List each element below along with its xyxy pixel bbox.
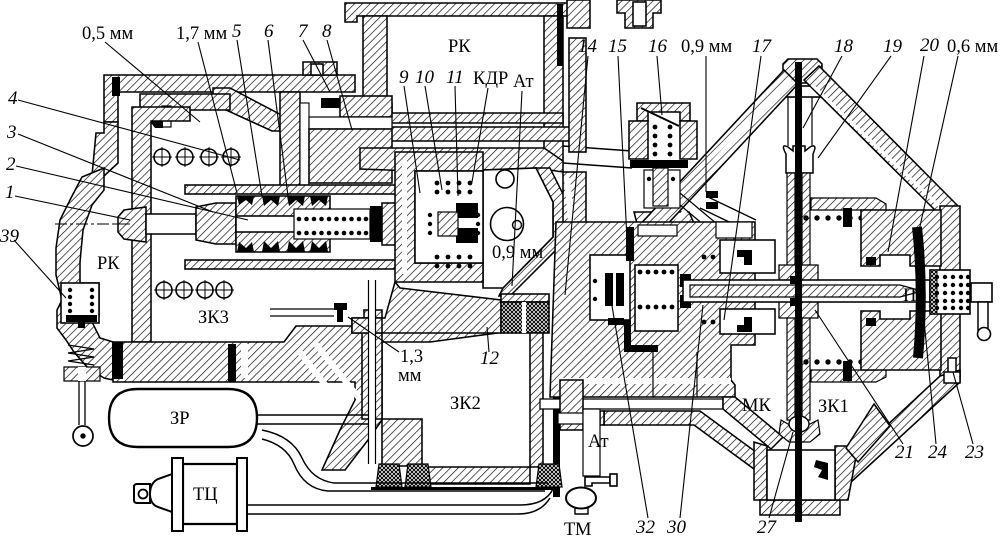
leader 6 bbox=[268, 40, 288, 196]
diamond lower-right slope band bbox=[826, 370, 960, 494]
KDR right wall band along pentagon bbox=[499, 168, 566, 296]
ZR tank bbox=[109, 389, 257, 447]
svg-text:П: П bbox=[903, 286, 916, 306]
stem tube upper lines bbox=[788, 97, 812, 146]
svg-text:Ат: Ат bbox=[513, 72, 534, 92]
assembly top black bar bbox=[626, 227, 634, 261]
svg-text:ТМ: ТМ bbox=[564, 520, 592, 537]
svg-text:мм: мм bbox=[398, 366, 422, 386]
svg-text:ЗК2: ЗК2 bbox=[450, 394, 481, 414]
KDR bracket interior bbox=[415, 171, 483, 263]
KDR center valve black rects bbox=[456, 203, 478, 218]
pocket B white bbox=[635, 265, 678, 331]
assembly black L seat bbox=[624, 320, 658, 352]
stem black continuous overlay bbox=[795, 62, 802, 520]
shaft black bits bbox=[790, 276, 799, 284]
vertical pillar bbox=[280, 92, 300, 186]
bottom pocket white bbox=[767, 450, 835, 500]
pipe ZR down right bbox=[262, 430, 548, 491]
leader 1,7mm bbox=[198, 42, 237, 193]
KDR piston spring dots upper bbox=[435, 181, 473, 195]
bottom bracket left band bbox=[754, 442, 767, 500]
svg-text:9: 9 bbox=[399, 67, 409, 88]
diagonal white channels in mass bbox=[298, 342, 359, 406]
ZK2 top bolt black bbox=[334, 303, 347, 322]
middle divider wall band bbox=[556, 172, 586, 310]
svg-text:39: 39 bbox=[0, 226, 20, 247]
white channel in slope bbox=[634, 196, 697, 276]
leader KDR bbox=[472, 88, 488, 182]
leader 39 bbox=[14, 240, 66, 298]
svg-text:18: 18 bbox=[834, 36, 854, 57]
svg-text:15: 15 bbox=[608, 36, 627, 57]
mesh block bbox=[930, 270, 970, 314]
svg-text:7: 7 bbox=[298, 21, 309, 42]
top-left black corner bar bbox=[112, 77, 120, 96]
KDR small dots center bbox=[428, 213, 480, 235]
diamond left slope band bbox=[594, 70, 798, 288]
dots row lower bbox=[803, 359, 874, 364]
apex plate bbox=[777, 86, 827, 97]
ZK2 left wall upper bbox=[362, 333, 382, 419]
white strip across assembly bbox=[556, 378, 731, 384]
piston shaft white channel bbox=[236, 216, 376, 232]
orifice 0,9mm black marks bbox=[706, 191, 718, 198]
TC flange right bbox=[237, 458, 247, 531]
shaft channel white bbox=[683, 280, 930, 302]
leader 32 bbox=[612, 306, 648, 518]
svg-text:1: 1 bbox=[5, 182, 15, 203]
shaft hatched bbox=[690, 285, 922, 297]
TC nose knob bbox=[134, 484, 150, 503]
black bar in band mid bbox=[228, 344, 236, 382]
valve16 black bar bbox=[630, 160, 688, 168]
leader 23 bbox=[953, 372, 973, 444]
muffler 3 bbox=[536, 464, 562, 487]
svg-text:0,9 мм: 0,9 мм bbox=[681, 37, 732, 57]
bolt hex head bbox=[118, 207, 146, 242]
KDR piston spring dots lower bbox=[435, 255, 473, 269]
KDR bracket slit bbox=[402, 160, 407, 274]
seal Y bottom 2 bbox=[262, 241, 280, 252]
bolt shaft bbox=[146, 214, 196, 234]
svg-text:ЗК1: ЗК1 bbox=[818, 397, 849, 417]
top wall bump bbox=[303, 62, 337, 75]
RK lower band second bbox=[375, 127, 576, 141]
ZK2 right wall bbox=[530, 333, 543, 467]
funnel band lower bbox=[604, 411, 760, 469]
valve16 stem dots bbox=[647, 177, 675, 181]
leader 19 bbox=[818, 56, 891, 158]
At channel walls bbox=[560, 380, 604, 430]
spring box bbox=[294, 209, 370, 239]
vertical white channel to muffler1 bbox=[369, 280, 376, 464]
valve16 foot bbox=[634, 212, 700, 246]
leader 9 bbox=[404, 86, 420, 193]
hatch above channel bbox=[340, 96, 392, 117]
pocket C hook top bbox=[737, 250, 752, 265]
pipe to ZK2 top horizontal bbox=[270, 309, 334, 316]
channel border lines in mass bbox=[653, 352, 697, 397]
bottom long wall band bbox=[113, 310, 520, 470]
pocket C white lower bbox=[720, 309, 775, 334]
svg-text:0,5 мм: 0,5 мм bbox=[82, 24, 133, 44]
leader 24 bbox=[918, 258, 936, 444]
svg-text:10: 10 bbox=[415, 67, 435, 88]
valve16 stem bbox=[653, 168, 668, 206]
seal Y bottom 3 bbox=[287, 241, 305, 252]
TC flange left bbox=[172, 458, 183, 531]
RK top box left wall bbox=[363, 16, 392, 115]
main stem black line bbox=[795, 62, 802, 522]
leader 20 bbox=[888, 56, 924, 252]
seal Y top 4 bbox=[310, 196, 328, 206]
valve39 black bar bbox=[66, 315, 97, 328]
TM valve ellipse bbox=[566, 488, 596, 509]
svg-text:11: 11 bbox=[446, 67, 464, 88]
svg-text:20: 20 bbox=[920, 35, 940, 56]
fitting pin bbox=[978, 302, 988, 330]
middle assembly base bbox=[550, 222, 755, 397]
pocket C white upper bbox=[720, 240, 775, 273]
svg-text:32: 32 bbox=[635, 517, 656, 537]
ZK2 heavy black L border bbox=[371, 308, 560, 497]
svg-text:6: 6 bbox=[264, 21, 274, 42]
diamond right wall bbox=[940, 206, 960, 376]
funnel band upper slant bbox=[723, 397, 783, 449]
TM stem bbox=[575, 508, 588, 514]
leader 27 bbox=[769, 432, 793, 518]
circles row 1 bbox=[152, 147, 241, 167]
svg-text:0,6 мм: 0,6 мм bbox=[947, 37, 998, 57]
channel slot above spring bbox=[638, 225, 677, 236]
left housing top wall bbox=[104, 75, 355, 122]
TC cylinder body bbox=[183, 464, 237, 524]
leader 1,3mm bbox=[348, 317, 399, 352]
leader 10 bbox=[425, 86, 442, 190]
spring dots bbox=[297, 217, 369, 236]
pipe ZR to housing bbox=[257, 415, 376, 424]
left housing inner vertical wall bbox=[132, 107, 190, 342]
svg-text:24: 24 bbox=[928, 442, 948, 463]
svg-text:8: 8 bbox=[322, 21, 332, 42]
stem black bottom bbox=[796, 420, 802, 520]
bottom bracket right band bbox=[835, 446, 858, 500]
seal Y top 2 bbox=[262, 196, 280, 206]
svg-text:21: 21 bbox=[895, 442, 914, 463]
right piston lower block bbox=[861, 311, 941, 370]
leader 0,6mm bbox=[914, 56, 958, 253]
right piston upper block bbox=[861, 210, 941, 266]
item7 black mark bbox=[321, 98, 340, 108]
white channel A bbox=[309, 117, 392, 129]
leader 11 bbox=[455, 86, 458, 196]
diamond right slope band bbox=[804, 66, 959, 219]
channel valve16 to diamond bbox=[700, 196, 756, 232]
pocket C hook bottom bbox=[737, 317, 752, 332]
KDR top band bbox=[360, 148, 563, 172]
svg-text:Ат: Ат bbox=[588, 432, 609, 452]
ZK2 left wall lower bbox=[382, 419, 422, 466]
valve16 spring dots bbox=[653, 125, 673, 157]
svg-text:19: 19 bbox=[883, 36, 903, 57]
pocket C dots bbox=[593, 255, 716, 325]
RK top box right wall bbox=[544, 16, 563, 160]
svg-text:5: 5 bbox=[232, 21, 242, 42]
circles row 2 bbox=[154, 280, 234, 300]
KDR small circle bbox=[496, 170, 514, 188]
dots row upper bbox=[803, 215, 874, 220]
svg-text:ТЦ: ТЦ bbox=[193, 485, 218, 505]
svg-text:РК: РК bbox=[448, 37, 471, 57]
valve39 stem bbox=[79, 381, 85, 425]
At stub white bbox=[558, 413, 583, 424]
leader 0,5mm bbox=[105, 42, 200, 122]
stem bulge bbox=[779, 265, 818, 318]
hatch strip right of RK wall bbox=[569, 38, 586, 152]
svg-text:МК: МК bbox=[742, 396, 771, 416]
KDR pentagon outline white bbox=[483, 168, 553, 288]
bottom bolt nut bbox=[944, 372, 960, 383]
ZK2 bottom wall bbox=[422, 467, 530, 484]
leader 3 bbox=[18, 134, 213, 212]
leader 14 bbox=[565, 56, 588, 295]
leader 5 bbox=[237, 40, 262, 196]
svg-text:2: 2 bbox=[6, 154, 16, 175]
TM handle end bbox=[610, 474, 617, 486]
bottom diaphragm plate bbox=[185, 260, 415, 269]
leader 16 bbox=[657, 56, 662, 115]
valve16 lower pocket bbox=[644, 170, 680, 208]
diaphragm black arc bbox=[917, 227, 921, 358]
leader 30 bbox=[680, 305, 703, 518]
leader 7 bbox=[303, 40, 330, 92]
spring dots rows pocket B bbox=[638, 270, 675, 310]
left housing inner step under top wall bbox=[140, 94, 230, 110]
TC nose cone bbox=[150, 474, 172, 512]
valve39 spring zigzag bbox=[68, 345, 94, 365]
right piston lower plate bbox=[811, 354, 886, 382]
diamond apex cap bbox=[783, 59, 822, 83]
KDR big circle bbox=[491, 208, 524, 241]
piston disc stack bbox=[236, 196, 330, 252]
piston hub bbox=[196, 203, 236, 244]
valve39 pocket box bbox=[61, 283, 99, 323]
stem poppet bbox=[783, 146, 814, 173]
svg-text:16: 16 bbox=[648, 36, 668, 57]
leader 15 bbox=[618, 56, 627, 240]
white slot in band bbox=[241, 344, 248, 378]
leader 8 bbox=[327, 40, 352, 130]
axis overlay left bbox=[55, 223, 130, 225]
KDR big circle inner bbox=[513, 221, 522, 230]
stem white bulb bbox=[789, 416, 809, 432]
At white channel vertical bbox=[583, 409, 600, 476]
seal Y bottom 1 bbox=[237, 242, 254, 252]
At white channel bbox=[526, 178, 573, 292]
muffler 1 bbox=[376, 464, 402, 487]
svg-text:КДР: КДР bbox=[473, 69, 508, 89]
horizontal white channel MK bbox=[540, 399, 723, 409]
valve16 needle bbox=[641, 108, 679, 126]
ZK2 top band bbox=[352, 318, 382, 333]
retainer white step bbox=[716, 222, 752, 238]
small black piston bits bbox=[866, 257, 876, 265]
leader 21 bbox=[815, 310, 903, 444]
hatch block B bbox=[309, 129, 392, 183]
svg-text:1,7 мм: 1,7 мм bbox=[176, 24, 227, 44]
svg-text:14: 14 bbox=[578, 36, 598, 57]
spring end cap bbox=[382, 203, 396, 245]
muffler 2 bbox=[405, 464, 431, 487]
RK top box top wall bbox=[345, 3, 580, 22]
pillar white slot bbox=[300, 103, 309, 186]
left slope inner channel bbox=[601, 79, 791, 279]
svg-text:23: 23 bbox=[965, 442, 984, 463]
RK box bottom band bbox=[365, 113, 563, 123]
svg-text:1,3: 1,3 bbox=[400, 347, 423, 367]
leader 12 bbox=[487, 327, 489, 352]
valve16 body top cap bbox=[637, 103, 690, 121]
filter slit bbox=[522, 302, 526, 333]
TM valve handle bbox=[585, 477, 610, 486]
stem foot flare bbox=[779, 420, 820, 442]
valve39 seat bbox=[64, 367, 100, 381]
svg-text:РК: РК bbox=[97, 254, 120, 274]
filter crosshatch block bbox=[501, 302, 549, 333]
leader 0,9mm top bbox=[705, 56, 707, 192]
valve39 dots bbox=[68, 288, 94, 313]
leader 1 bbox=[15, 196, 130, 220]
top right hatched piece bbox=[567, 0, 590, 28]
KDR piston bracket bbox=[395, 152, 483, 282]
valve39 ring handle bbox=[73, 426, 93, 446]
pocket A white bbox=[590, 255, 630, 320]
svg-text:30: 30 bbox=[666, 517, 687, 537]
right piston upper plate bbox=[811, 198, 886, 227]
channel RK to valve16 bbox=[563, 146, 632, 168]
top diaphragm plate bbox=[185, 185, 415, 194]
leader At top bbox=[512, 91, 522, 286]
piston axis dash-dot bbox=[115, 223, 560, 225]
black bar in band left bbox=[112, 342, 123, 379]
leader 18 bbox=[803, 56, 842, 128]
valve16 side columns bbox=[629, 121, 697, 159]
seal Y top 1 bbox=[237, 196, 254, 205]
valve seat black squares bbox=[680, 274, 691, 287]
seal Y bottom 4 bbox=[310, 241, 328, 252]
bottom bolt rod bbox=[948, 358, 956, 380]
right axis dash-dot bbox=[560, 290, 990, 292]
top-right flange bracket bbox=[617, 0, 661, 28]
channel below valve16 bbox=[680, 193, 717, 230]
svg-text:12: 12 bbox=[480, 348, 500, 369]
flange bolt white bbox=[633, 2, 646, 26]
left outer bulge wall bbox=[56, 168, 113, 380]
pipe TC to right bbox=[247, 489, 553, 514]
bottom bracket bottom bbox=[760, 500, 840, 515]
RK box corner black bar bbox=[557, 4, 563, 66]
svg-text:17: 17 bbox=[752, 36, 773, 57]
svg-text:ЗК3: ЗК3 bbox=[198, 308, 229, 328]
leader 2 bbox=[16, 166, 248, 220]
svg-text:ЗР: ЗР bbox=[170, 409, 190, 429]
step white slot bbox=[162, 106, 171, 127]
leader 17 bbox=[724, 56, 761, 320]
valve black rects pocket A bbox=[605, 273, 613, 306]
KDR center hatched piston bbox=[438, 212, 458, 236]
black hook bottom pocket bbox=[814, 460, 828, 480]
right fitting bbox=[971, 283, 992, 302]
right slope inner channel bbox=[812, 85, 950, 216]
svg-text:4: 4 bbox=[8, 88, 18, 109]
black seal J bbox=[148, 110, 163, 128]
svg-text:27: 27 bbox=[757, 517, 778, 537]
seal Y top 3 bbox=[287, 196, 305, 206]
left outer wall upper bbox=[91, 122, 118, 186]
svg-text:3: 3 bbox=[6, 122, 17, 143]
filter collar bbox=[501, 294, 549, 302]
fitting pin ball bbox=[978, 328, 991, 341]
svg-text:0,9 мм: 0,9 мм bbox=[492, 243, 543, 263]
funnel right wall ZK1 bbox=[846, 404, 890, 462]
leader 4 bbox=[18, 100, 240, 160]
spring end black bar bbox=[370, 206, 382, 242]
plate lip black bars bbox=[843, 208, 852, 227]
stem tube columns bbox=[787, 173, 810, 420]
KDR below-bracket diagonal mass bbox=[352, 282, 501, 333]
left housing inner diagonal band bbox=[213, 88, 287, 131]
